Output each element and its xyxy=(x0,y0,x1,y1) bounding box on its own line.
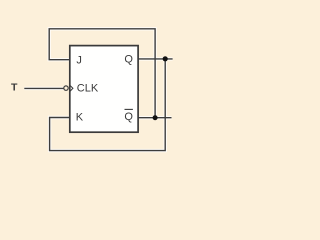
wire: T input to CLK bubble xyxy=(24,87,64,89)
svg-text:Q: Q xyxy=(124,53,133,65)
svg-text:Q: Q xyxy=(124,111,133,123)
junction dot: Q-bar to inner feedback xyxy=(153,115,158,120)
svg-text:J: J xyxy=(76,54,82,66)
CLK inversion bubble xyxy=(64,86,68,90)
svg-text:K: K xyxy=(76,112,84,124)
wire: Q output xyxy=(138,58,173,60)
svg-text:T: T xyxy=(11,82,18,94)
JK flip-flop U1 body xyxy=(70,46,138,133)
wire: Q feedback to K input (bottom loop) xyxy=(50,59,166,151)
wire: Q-bar feedback to J input (top loop) xyxy=(49,29,155,118)
junction dot: Q to outer feedback xyxy=(163,56,168,61)
svg-text:CLK: CLK xyxy=(77,83,99,95)
clock edge triangle xyxy=(70,86,73,92)
wire: Q-bar output xyxy=(138,117,172,119)
white halo understrokes for wires xyxy=(24,29,172,151)
Q-bar overline xyxy=(125,108,133,110)
